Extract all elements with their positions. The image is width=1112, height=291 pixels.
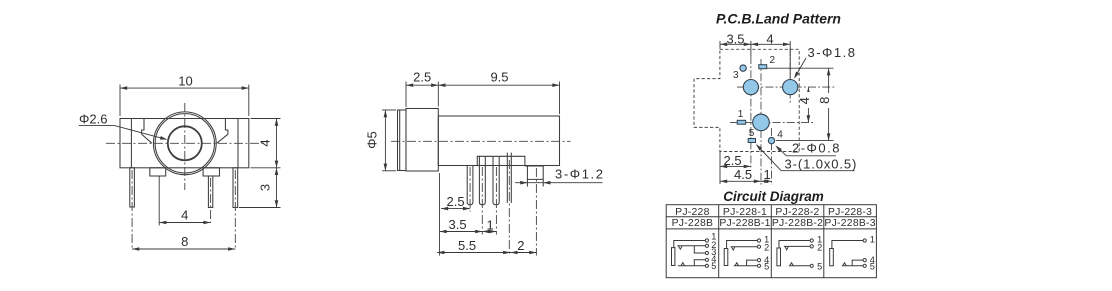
svg-text:5: 5 [764, 261, 769, 271]
pad hole B [783, 80, 798, 95]
svg-text:4.5: 4.5 [734, 167, 752, 182]
pin3 axis [234, 170, 236, 249]
pin C axis [495, 167, 497, 235]
land centerlines [730, 48, 836, 185]
svg-text:Circuit Diagram: Circuit Diagram [723, 189, 824, 204]
dim 2.5 / 9.5 top [406, 82, 560, 115]
contact terminal 1 [863, 239, 866, 242]
svg-text:8: 8 [817, 97, 832, 104]
svg-text:1: 1 [764, 167, 771, 182]
wire pin2 with break contact [677, 246, 705, 249]
dim 8 bottom [132, 248, 235, 250]
pin2 axis [210, 178, 212, 223]
jack body outline [120, 119, 249, 168]
land bottom dims [720, 152, 772, 185]
body inner wall left [130, 119, 132, 168]
contact terminal 5 [810, 264, 813, 267]
svg-text:3: 3 [258, 184, 273, 191]
contact terminal 4 [705, 258, 708, 261]
contact terminal 2 [705, 244, 708, 247]
svg-text:2: 2 [770, 55, 776, 66]
round pin B side [479, 156, 485, 205]
outer boss circle [153, 112, 216, 175]
centerline col pad4 [771, 128, 773, 185]
tab extension line [158, 176, 160, 226]
left mounting tab [150, 168, 166, 176]
svg-text:5: 5 [711, 261, 716, 271]
svg-text:8: 8 [181, 234, 188, 249]
jack sleeve 2 [724, 249, 728, 266]
svg-text:PJ-228B: PJ-228B [672, 218, 714, 229]
svg-text:2.5: 2.5 [447, 194, 465, 209]
pin1 axis [131, 170, 133, 249]
pin D stub top [507, 153, 511, 157]
svg-text:2: 2 [817, 242, 822, 252]
svg-text:5: 5 [749, 128, 755, 139]
dim 8 right of land [767, 68, 834, 140]
centerline row A-B [737, 86, 836, 88]
wire pin4 [852, 260, 863, 266]
svg-text:2.5: 2.5 [413, 70, 431, 85]
wire pin1 [779, 241, 810, 249]
dim 4 right [251, 119, 281, 168]
svg-text:PJ-228-2: PJ-228-2 [775, 207, 819, 218]
svg-text:4: 4 [766, 31, 773, 46]
svg-text:4: 4 [181, 208, 188, 223]
contact terminal 5 [863, 264, 866, 267]
dim 3-phi1.2 [515, 182, 603, 184]
contact terminal 5 [757, 264, 760, 267]
pin shoulder plate [477, 156, 525, 165]
svg-text:2: 2 [764, 242, 769, 252]
pin B axis [481, 167, 483, 235]
svg-text:9.5: 9.5 [490, 70, 508, 85]
svg-text:5: 5 [870, 261, 875, 271]
svg-text:3.5: 3.5 [726, 31, 744, 46]
dim 3 right [239, 168, 281, 208]
centerlines front view [106, 103, 264, 249]
centerline col A [750, 56, 752, 169]
flat pin D side [507, 156, 511, 203]
wire pin2 with break contact [784, 246, 810, 249]
svg-text:10: 10 [178, 74, 192, 89]
dim 4 bottom [159, 222, 210, 224]
pin D axis [508, 160, 510, 256]
wire pin1 [727, 241, 758, 249]
vertical centerline [184, 103, 186, 190]
svg-text:5: 5 [817, 261, 822, 271]
centerline row C [730, 121, 814, 123]
centerline col C [760, 59, 762, 185]
contact terminal 3 [705, 251, 708, 254]
svg-text:4: 4 [777, 130, 783, 141]
wire pin2 with break contact [731, 247, 758, 250]
wire pin1 [674, 241, 706, 248]
svg-text:PJ-228B-1: PJ-228B-1 [719, 218, 770, 229]
svg-text:PJ-228-3: PJ-228-3 [828, 207, 872, 218]
jack sleeve 1 [672, 248, 675, 266]
right mounting tab [203, 168, 219, 176]
wire pin4 [747, 260, 758, 266]
body inner wall right [237, 119, 239, 168]
contact terminal 1 [810, 239, 813, 242]
snap post [525, 166, 543, 187]
barrel tip [398, 110, 407, 171]
svg-text:2.5: 2.5 [724, 153, 742, 168]
jack sleeve 3 [777, 248, 781, 266]
dim 4 right of land [807, 87, 809, 122]
side bottom dims [437, 173, 536, 256]
dim 10 [120, 85, 249, 117]
svg-text:3.5: 3.5 [449, 217, 467, 232]
svg-text:PJ-228-1: PJ-228-1 [723, 207, 767, 218]
right notch [217, 119, 228, 144]
pin 3 front [233, 168, 238, 208]
svg-text:1: 1 [870, 234, 875, 244]
round pin C side [493, 156, 499, 205]
schematic PJ-228 [672, 239, 709, 268]
small hole 4 [768, 137, 774, 143]
svg-text:4: 4 [258, 139, 273, 146]
wire pin5 with make contact [678, 263, 706, 266]
slot pad 2 [759, 65, 767, 69]
schematic PJ-228-3 [830, 239, 867, 268]
schematic PJ-228-1 [724, 239, 760, 268]
jack hole circle [168, 126, 202, 160]
left notch [142, 119, 152, 144]
contact terminal 1 [757, 239, 760, 242]
wire pin5 with make contact [734, 263, 758, 266]
contact terminal 2 [757, 245, 760, 248]
contact terminal 4 [863, 259, 866, 262]
contact terminal 4 [757, 259, 760, 262]
pad hole A [743, 80, 758, 95]
flange [406, 109, 438, 172]
schematic PJ-228-2 [777, 239, 813, 268]
contact terminal 2 [810, 245, 813, 248]
pad hole C [753, 114, 770, 131]
svg-text:Φ2.6: Φ2.6 [79, 111, 107, 126]
centerline col B [789, 48, 791, 104]
svg-text:1: 1 [738, 109, 744, 120]
wire pin4 [694, 260, 705, 266]
svg-text:2-Φ0.8: 2-Φ0.8 [792, 141, 841, 156]
pin 2 front [208, 176, 212, 208]
svg-text:PJ-228: PJ-228 [675, 207, 709, 218]
slot pad 5 [748, 139, 755, 143]
wire pin5 with make contact [789, 263, 810, 266]
dashed body outline [694, 49, 799, 151]
svg-text:4: 4 [797, 97, 812, 104]
dim phi5 [382, 110, 396, 171]
horizontal centerline [106, 142, 264, 144]
table grid [666, 205, 876, 278]
svg-text:1: 1 [487, 218, 494, 233]
svg-text:2: 2 [517, 238, 524, 253]
pin 1 front [130, 168, 135, 207]
svg-text:Φ5: Φ5 [365, 131, 380, 149]
svg-text:3-Φ1.2: 3-Φ1.2 [555, 167, 605, 182]
pin A axis [469, 167, 471, 212]
svg-text:P.C.B.Land Pattern: P.C.B.Land Pattern [716, 11, 841, 27]
post axis [535, 168, 537, 256]
round pin A side [467, 166, 473, 205]
small hole 3 [740, 65, 746, 71]
svg-text:3-(1.0x0.5): 3-(1.0x0.5) [785, 157, 858, 172]
svg-text:5.5: 5.5 [458, 238, 476, 253]
side view centerline [391, 141, 571, 255]
cylinder body [438, 116, 559, 166]
contact terminal 5 [705, 264, 708, 267]
boss ring circle [155, 114, 214, 173]
svg-text:PJ-228B-3: PJ-228B-3 [824, 218, 875, 229]
wire pin5 with make contact [842, 263, 863, 266]
wire pin1 [832, 241, 863, 249]
svg-text:3-Φ1.8: 3-Φ1.8 [808, 45, 857, 60]
jack sleeve 4 [830, 249, 834, 266]
dim 3.5 / 4 top of land [720, 41, 790, 78]
svg-text:PJ-228B-2: PJ-228B-2 [772, 218, 823, 229]
slot pad 1 [737, 120, 746, 124]
svg-text:3: 3 [733, 70, 739, 81]
contact terminal 1 [705, 239, 708, 242]
wire pin3 [694, 246, 705, 253]
